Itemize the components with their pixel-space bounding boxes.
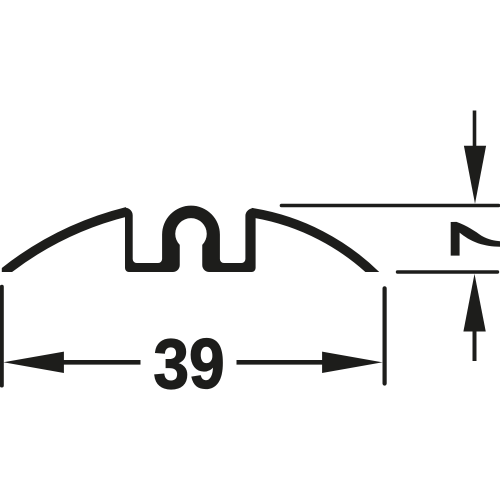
svg-text:39: 39 [153, 325, 224, 403]
dimension 7: bottom reference line [398, 270, 498, 273]
profile left ramp curve [0, 212, 127, 276]
dimension 39: left extension line [0, 287, 4, 386]
dimension 7: lower arrow tail [473, 331, 477, 361]
dimension 7: upper arrowhead (pointing down) [464, 146, 486, 204]
dimension 7: label (rotated digit 7, drawn as path) [451, 222, 500, 256]
dimension 39: line right segment [237, 360, 325, 365]
dimension 7: lower arrowhead (pointing up) [463, 274, 485, 332]
dimension 39: line left segment [62, 360, 141, 365]
dimension 7: upper arrow tail [473, 111, 477, 148]
profile body: left wall, bottom band, keyhole arch, right up-stroke [123, 206, 255, 272]
dimension 39: right arrowhead [322, 352, 383, 373]
profile right ramp curve [251, 213, 380, 280]
dimension 39: right extension line [383, 288, 387, 383]
dimension 39: left arrowhead [3, 352, 64, 373]
dimension 7: top reference line [282, 204, 499, 208]
